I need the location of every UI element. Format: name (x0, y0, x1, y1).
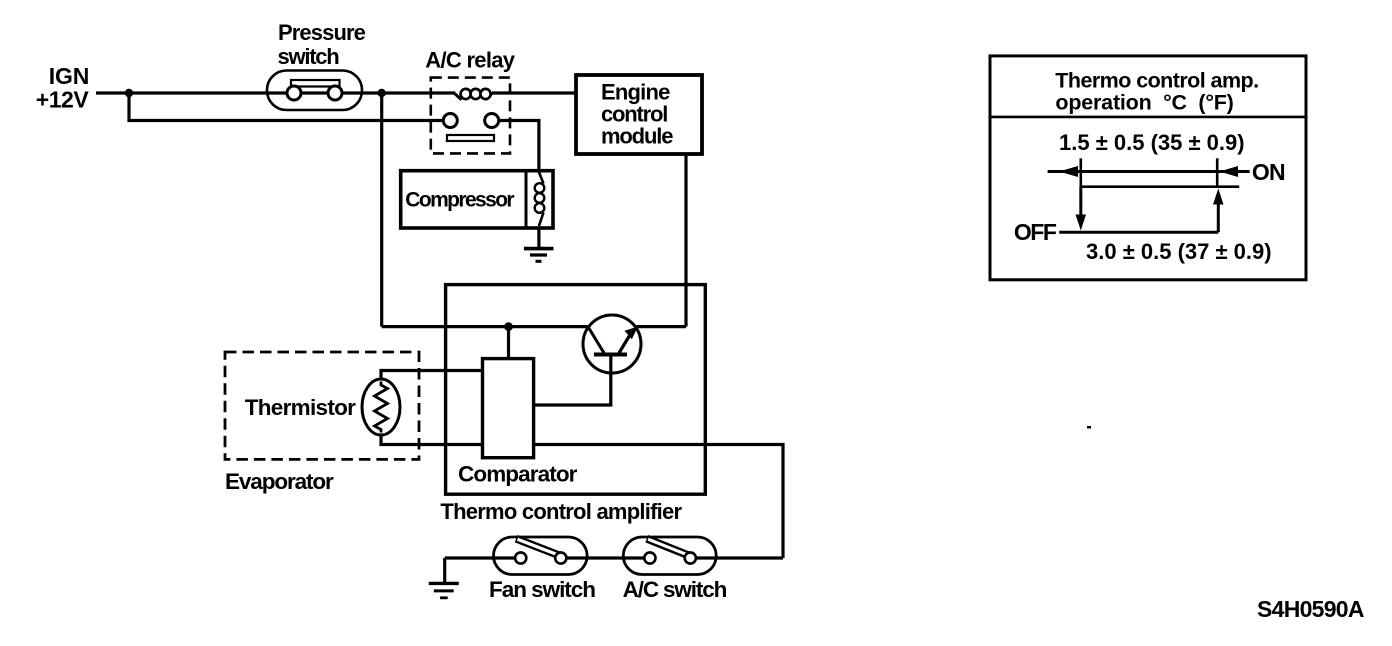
pressure switch label (278, 20, 366, 69)
relay contact circle right (485, 114, 499, 128)
tick left (1080, 158, 1083, 187)
table header separator (990, 116, 1306, 119)
svg-text:S4H0590A: S4H0590A (1257, 596, 1364, 622)
engine control module U1 box (576, 75, 702, 154)
svg-text:Thermo control amplifier: Thermo control amplifier (440, 499, 682, 524)
wire comparator output to transistor base (534, 373, 611, 405)
tick right (1216, 158, 1219, 187)
transistor collector line with arrow (619, 332, 632, 354)
A/C switch oval (623, 537, 716, 575)
A/C switch contact circles (644, 552, 655, 563)
transistor emitter line (589, 328, 605, 354)
node junction dot at x=129 (125, 89, 133, 97)
svg-text:Compressor: Compressor (405, 189, 514, 212)
fan switch oval (494, 537, 588, 575)
svg-text:3.0 ± 0.5 (37 ± 0.9): 3.0 ± 0.5 (37 ± 0.9) (1086, 239, 1272, 264)
label 1.5 (1059, 130, 1245, 155)
wire main +12V feed horizontal y=93 (96, 91, 576, 94)
wire ECM output down (684, 154, 687, 327)
wire thermistor loop and lower feed to switches (381, 371, 783, 559)
svg-text:+12V: +12V (36, 87, 90, 113)
wire switches line (445, 556, 783, 559)
compressor clutch coil (539, 172, 544, 226)
svg-text:ON: ON (1252, 159, 1285, 185)
compressor box (401, 171, 553, 228)
svg-text:OFF: OFF (1014, 219, 1057, 245)
transistor base bar (594, 353, 627, 357)
wire relay contact to compressor coil (499, 121, 539, 249)
A/C switch blade (647, 539, 692, 557)
stray mark (1087, 426, 1091, 429)
ON line (1048, 170, 1250, 173)
svg-text:A/C relay: A/C relay (425, 48, 515, 73)
compressor clutch compartment divider (525, 171, 528, 228)
label 3.0 (1086, 239, 1272, 264)
transistor base stem (609, 355, 612, 377)
evaporator dashed box (225, 352, 419, 459)
node junction dot at x=381.7 (378, 89, 386, 97)
ground bottom left (443, 558, 446, 582)
svg-text:Fan switch: Fan switch (489, 577, 595, 602)
comparator box (483, 359, 534, 458)
svg-text:Comparator: Comparator (458, 461, 578, 486)
OFF line (1059, 231, 1218, 234)
thermo control amplifier outer box (446, 285, 706, 495)
pressure switch PS body (267, 71, 362, 111)
A/C relay label (425, 48, 515, 73)
relay coil on main wire (454, 93, 493, 100)
node ON label (1252, 159, 1285, 185)
arrow left on ON line (1059, 166, 1078, 177)
pressure switch contact bar (291, 80, 340, 87)
wire lower branch to relay contact (129, 93, 450, 121)
pressure switch contact circle right (328, 86, 342, 100)
thermistor zigzag (375, 382, 388, 433)
svg-text:module: module (601, 124, 673, 149)
fan switch blade (516, 539, 563, 557)
pressure switch contact circle left (287, 86, 301, 100)
thermistor ellipse (362, 379, 400, 435)
ground under compressor (524, 247, 554, 251)
svg-text:Pressure: Pressure (278, 20, 366, 45)
A/C relay dashed box (431, 78, 510, 154)
drop arrow left (1079, 187, 1082, 217)
wire vertical from junction down to amplifier line (380, 93, 383, 327)
riser arrow right (1217, 204, 1220, 232)
arrow right on ON line (1220, 166, 1239, 177)
table thermo control amp operation (990, 56, 1306, 280)
svg-text:A/C switch: A/C switch (623, 577, 727, 602)
wire stub from bus to comparator top (507, 327, 510, 359)
svg-text:Thermistor: Thermistor (245, 395, 356, 420)
svg-text:IGN: IGN (49, 63, 90, 89)
relay contact bar (447, 135, 494, 141)
label figure id S4H0590A (1257, 596, 1364, 622)
relay contact circle left (443, 114, 457, 128)
svg-text:Evaporator: Evaporator (225, 469, 334, 494)
fan switch contact circles (515, 552, 526, 563)
wire horizontal bus y=326.6 (382, 325, 686, 328)
node IGN +12V label (36, 63, 90, 113)
svg-text:switch: switch (278, 44, 340, 69)
node OFF label (1014, 219, 1057, 245)
second line (1081, 185, 1239, 188)
node junction dot on bus (504, 322, 513, 331)
svg-text:1.5 ± 0.5 (35 ± 0.9): 1.5 ± 0.5 (35 ± 0.9) (1059, 130, 1245, 155)
svg-text:operation °C (°F): operation °C (°F) (1055, 91, 1233, 115)
transistor Q1 (583, 315, 641, 373)
svg-text:Thermo control amp.: Thermo control amp. (1055, 69, 1258, 93)
